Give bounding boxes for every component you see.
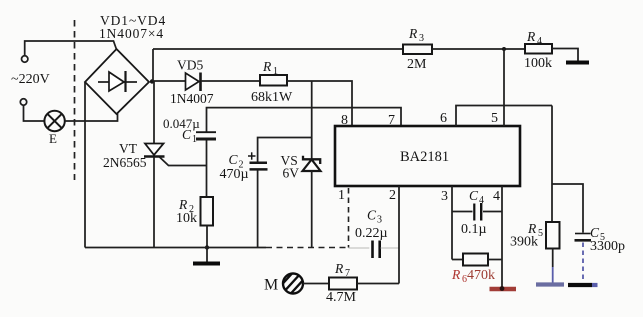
wire VT cathode to rail — [153, 157, 155, 248]
wire C2 bottom to rail — [257, 170, 259, 247]
svg-text:C: C — [469, 188, 479, 203]
terminal upper (AC input) — [22, 56, 28, 62]
svg-text:5: 5 — [538, 228, 543, 239]
capacitor C2 polarized — [250, 163, 268, 170]
ground symbol main — [193, 248, 220, 264]
wire pin2 down — [398, 186, 400, 284]
svg-text:470k: 470k — [467, 268, 495, 283]
zener VS 6V — [303, 156, 321, 171]
junction dot at red ground — [500, 286, 505, 291]
svg-text:3300p: 3300p — [590, 239, 625, 254]
junction dot R3/R4 node — [502, 47, 506, 51]
wire C3 left — [349, 247, 370, 249]
svg-text:M: M — [264, 277, 278, 294]
svg-text:100k: 100k — [524, 56, 552, 71]
svg-text:7: 7 — [345, 268, 350, 279]
ground under C5 — [568, 283, 592, 287]
motor M — [277, 268, 309, 305]
wire C3 right to pin2 — [381, 247, 399, 249]
wire C5 bottom blue dashed — [582, 243, 584, 282]
wire C1 bottom to R2 — [206, 141, 208, 198]
svg-text:390k: 390k — [510, 235, 538, 250]
svg-text:4: 4 — [479, 195, 484, 206]
wire VD5 to R1 — [201, 80, 260, 82]
wire from lower terminal to lamp — [24, 105, 45, 121]
svg-text:3: 3 — [441, 189, 448, 204]
wire pin4 down — [501, 186, 503, 287]
svg-text:7: 7 — [388, 113, 395, 128]
wire C4 left — [452, 211, 473, 213]
svg-text:4: 4 — [537, 36, 542, 47]
wire R4 to ground — [552, 49, 578, 62]
terminal lower (AC input) — [20, 99, 26, 105]
thyristor VT 2N6565 — [144, 144, 207, 166]
capacitor C5 — [575, 234, 592, 241]
svg-text:1N4007×4: 1N4007×4 — [99, 26, 164, 41]
svg-text:R: R — [334, 261, 344, 276]
svg-text:VD5: VD5 — [177, 58, 203, 73]
ground rail solid — [85, 247, 266, 249]
svg-text:~220V: ~220V — [11, 72, 50, 87]
capacitor C4 — [474, 203, 481, 221]
wire R2 to rail — [206, 226, 208, 248]
svg-text:R: R — [408, 26, 418, 41]
junction dot R2/rail — [205, 245, 209, 249]
resistor R5 — [546, 222, 560, 249]
wire from upper terminal to bridge top corner — [25, 41, 117, 56]
top rail to R3 — [153, 48, 403, 50]
wire C4 right — [483, 211, 502, 213]
wire R1 to pin8 corner — [287, 81, 352, 126]
ground rail dashed — [266, 247, 349, 249]
svg-text:3: 3 — [419, 33, 424, 44]
resistor R2 — [201, 197, 214, 226]
svg-text:2M: 2M — [407, 57, 427, 72]
svg-text:VT: VT — [119, 141, 138, 156]
dashed boundary line — [74, 20, 76, 180]
svg-text:E: E — [49, 131, 57, 146]
wire R6 right — [488, 259, 502, 261]
wire R3 to R4 — [432, 48, 525, 50]
capacitor C3 — [373, 241, 380, 259]
svg-text:C: C — [367, 208, 377, 223]
wire R5 bottom blue part — [552, 267, 554, 283]
resistor R4 — [525, 44, 552, 54]
svg-text:4: 4 — [493, 189, 500, 204]
diode VD5 — [186, 73, 201, 92]
svg-text:6V: 6V — [283, 166, 300, 181]
wire pin1 dashed — [348, 188, 350, 248]
wire VS to rail — [311, 171, 313, 248]
wire R5 bottom black part — [552, 249, 554, 268]
svg-text:C: C — [590, 225, 600, 240]
capacitor C1 — [196, 132, 216, 139]
svg-text:10k: 10k — [176, 211, 197, 226]
plus sign C2 — [248, 152, 256, 159]
wire R7 to pin2 — [357, 283, 399, 285]
ground after R4 — [566, 61, 589, 65]
svg-text:R: R — [178, 197, 188, 212]
wire pin5 to R3/R4 node — [503, 49, 505, 126]
wire C2 top tap — [258, 138, 312, 162]
wire R6 left — [452, 259, 463, 261]
svg-text:1N4007: 1N4007 — [170, 91, 214, 106]
ground under pin4 (red) — [490, 287, 517, 291]
wire pin6 up and right — [456, 106, 552, 127]
wire VDD tap down to VS — [311, 81, 313, 160]
svg-text:1: 1 — [192, 134, 197, 145]
resistor R1 — [260, 75, 287, 86]
svg-text:BA2181: BA2181 — [400, 149, 449, 165]
svg-text:R: R — [262, 59, 272, 74]
wire down to R5 — [551, 106, 553, 223]
svg-text:0.22µ: 0.22µ — [355, 226, 388, 241]
svg-text:5: 5 — [491, 111, 498, 126]
svg-text:1: 1 — [338, 188, 345, 203]
svg-text:C: C — [229, 152, 239, 167]
wire pin3 down — [451, 186, 453, 260]
lamp E — [44, 111, 64, 131]
svg-text:0.1µ: 0.1µ — [461, 222, 487, 237]
resistor R7 — [329, 278, 357, 290]
junction dot DC+ — [150, 79, 154, 83]
svg-text:4.7M: 4.7M — [326, 290, 357, 305]
resistor R3 — [403, 45, 432, 55]
wire C5 branch — [552, 184, 583, 233]
wire lamp to bridge bottom corner — [65, 113, 118, 122]
thyristor VT anode wire — [153, 81, 155, 144]
svg-text:6: 6 — [440, 111, 447, 126]
svg-text:470µ: 470µ — [220, 167, 249, 182]
svg-text:R: R — [526, 29, 536, 44]
bridge rectifier VD1-VD4 — [85, 49, 149, 114]
wire M to R7 — [303, 283, 329, 285]
svg-text:1: 1 — [273, 66, 278, 77]
wire bridge left corner down to ground rail — [84, 83, 86, 248]
svg-text:2: 2 — [389, 188, 396, 203]
wire DC+ to VD5 — [153, 80, 185, 82]
svg-text:2N6565: 2N6565 — [103, 155, 147, 170]
IC U1 BA2181 — [335, 126, 520, 186]
ground under C5 blue tick — [592, 283, 598, 287]
svg-text:R: R — [451, 267, 461, 282]
svg-text:C: C — [182, 127, 192, 142]
wire DC+ up to top rail — [152, 49, 154, 81]
ground under R5 (blue) — [536, 282, 564, 286]
wire C1 top rail to pin7 — [207, 108, 402, 132]
svg-text:68k1W: 68k1W — [251, 90, 293, 105]
resistor R6 — [463, 254, 488, 266]
svg-text:3: 3 — [377, 215, 382, 226]
svg-text:8: 8 — [341, 113, 348, 128]
